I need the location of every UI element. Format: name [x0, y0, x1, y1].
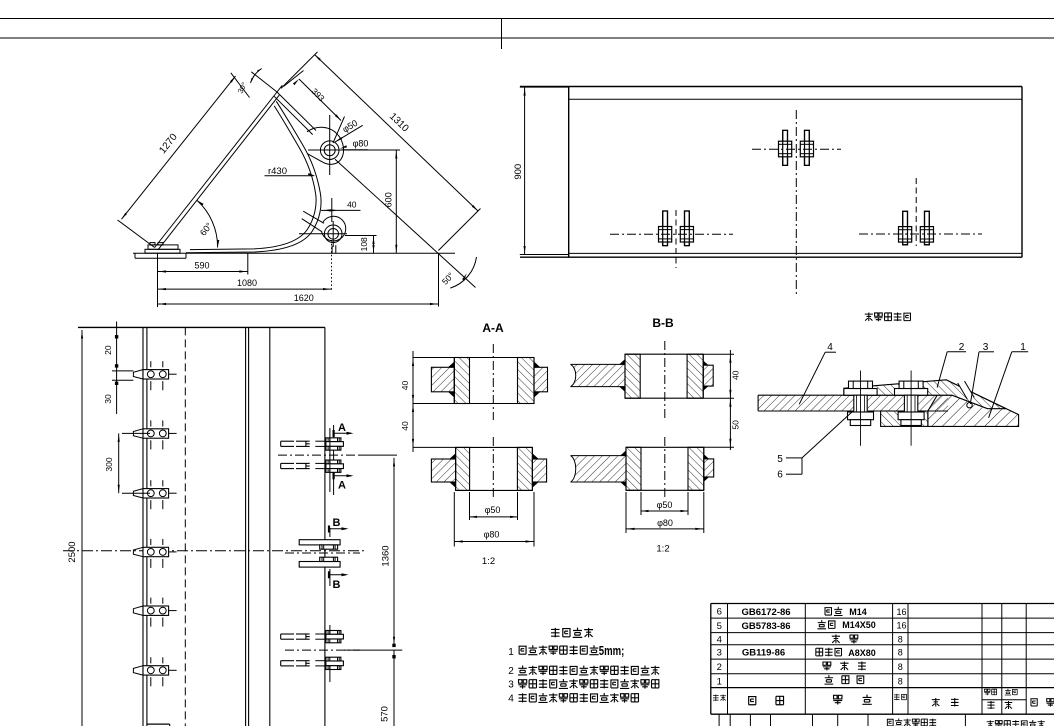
- B-B upper bushing: [625, 354, 640, 398]
- fastener row A upper clamp: [281, 440, 294, 442]
- svg-text:5mm;: 5mm;: [599, 644, 625, 658]
- A-A lower right plate: [532, 459, 546, 482]
- dimension 108: [345, 235, 377, 237]
- svg-text:M14X50: M14X50: [842, 620, 876, 630]
- A-A upper right plate: [534, 367, 548, 392]
- sheet border top line 1: [0, 18, 1054, 20]
- B-B lower right tab: [704, 459, 714, 477]
- svg-text:6: 6: [717, 606, 722, 617]
- pairB horizontal centerline: [752, 148, 841, 150]
- svg-text:B: B: [333, 517, 341, 529]
- tooth bolt at 911.1 nut chamfer: [901, 420, 921, 426]
- tooth 3: [133, 480, 176, 509]
- bucket top edge outer line: [155, 92, 277, 248]
- pairC bolt 2 nut: [920, 227, 933, 243]
- svg-text:A: A: [338, 480, 346, 492]
- parts table name row1 qiexiaoren: [824, 675, 833, 684]
- pairA bolt 1 nut: [659, 227, 672, 243]
- upper boss hole inner circle phi50: [324, 145, 335, 156]
- dimension 300: [118, 433, 120, 493]
- svg-text:3: 3: [717, 648, 722, 659]
- row C bolt axis line: [329, 625, 331, 634]
- dimension 1080: [331, 240, 333, 292]
- parts table header xuhao: [713, 695, 719, 701]
- row C centerline: [285, 649, 360, 651]
- B-B upper weld triangles: [620, 359, 626, 364]
- pairA bolt 1 shank: [663, 211, 668, 246]
- dimension 900: [520, 86, 569, 88]
- dimension 40 upper: [321, 209, 361, 211]
- parts table name row2 jibenchi: [823, 662, 831, 671]
- tooth 4: [133, 539, 176, 568]
- pairC horizontal centerline: [859, 233, 982, 235]
- tooth 6: [133, 657, 176, 686]
- svg-text:600: 600: [383, 192, 393, 207]
- part2 adapter upper: [844, 380, 1006, 409]
- bucket top edge inner line: [158, 95, 279, 250]
- svg-text:φ50: φ50: [657, 500, 673, 510]
- tooth bolt at 860.5 head: [849, 381, 873, 388]
- svg-text:8: 8: [898, 676, 903, 686]
- row B centerline: [285, 552, 360, 554]
- svg-text:1620: 1620: [294, 293, 314, 303]
- dimension 50deg arc: [450, 257, 476, 288]
- svg-text:3: 3: [508, 680, 514, 691]
- diagonal line boss to corner 50deg: [335, 159, 476, 287]
- part3 pin circle: [967, 403, 972, 408]
- svg-text:20: 20: [103, 345, 113, 355]
- pairB bolt 2 nut: [800, 141, 813, 157]
- parts table header cailiao: [932, 698, 940, 707]
- B-B upper arm: [571, 364, 626, 386]
- tooth bolt at 860.5 washer: [844, 389, 877, 396]
- dimension phi50 leader: [335, 125, 363, 142]
- A-A lower bushing: [456, 447, 470, 490]
- svg-text:40: 40: [400, 421, 410, 431]
- row C 570 extension line: [344, 649, 402, 651]
- upper boss outline: [307, 127, 344, 164]
- svg-text:16: 16: [896, 607, 906, 617]
- lip outer line: [277, 92, 316, 131]
- A-A upper weld triangles: [448, 362, 454, 368]
- B-B dimension 40 50: [729, 350, 731, 450]
- fastener row C upper clamp: [281, 633, 294, 635]
- parts table name row6 luomu M14: [824, 608, 832, 615]
- row B bolt axis line: [329, 528, 331, 537]
- base plate lower line: [135, 257, 186, 259]
- pairC bolt 1 shank: [903, 211, 908, 245]
- lip inner line: [274, 96, 313, 134]
- tooth section title: [865, 312, 873, 321]
- svg-text:1:2: 1:2: [482, 556, 495, 567]
- svg-text:GB5783-86: GB5783-86: [741, 621, 790, 632]
- shell outer curve: [186, 101, 321, 253]
- svg-text:590: 590: [194, 260, 209, 270]
- cutting edge bolt heads: [150, 243, 155, 245]
- dimension 1310: [315, 55, 479, 212]
- parts table header zhongliang: [987, 701, 994, 709]
- shell inner curve: [190, 106, 316, 250]
- lower boss crosshair vertical: [332, 221, 334, 247]
- fastener row B upper plate: [299, 540, 340, 545]
- row A centerline: [278, 454, 360, 456]
- fastener row C lower nut stack: [326, 657, 341, 661]
- lower boss inner circle: [328, 229, 339, 240]
- svg-text:6: 6: [777, 470, 783, 481]
- svg-text:A8X80: A8X80: [848, 648, 876, 658]
- fastener row A lower nut stack: [326, 460, 341, 464]
- upper boss crosshair vertical: [329, 115, 331, 175]
- pairA bolt 2 nut: [680, 227, 693, 243]
- pairC bolt 2 shank: [925, 211, 930, 245]
- svg-text:50: 50: [730, 420, 740, 430]
- fastener row C lower clamp: [281, 660, 294, 662]
- pairC bolt 1 nut: [899, 227, 912, 243]
- front view lip second line at A row: [333, 425, 335, 495]
- svg-text:40: 40: [400, 381, 410, 391]
- front view lip edge line: [324, 327, 326, 726]
- tooth bolt at 860.5 nut chamfer: [850, 420, 870, 426]
- svg-text:1:2: 1:2: [656, 544, 669, 555]
- pairB bolt 1 nut: [779, 141, 792, 157]
- section arrow B bottom: [328, 571, 330, 578]
- parts table name row4 chijian: [832, 634, 840, 643]
- rear view inner top line: [569, 98, 1022, 100]
- svg-text:1080: 1080: [237, 278, 257, 288]
- svg-text:40: 40: [347, 199, 357, 209]
- B-B upper right tab: [703, 365, 713, 386]
- parts table header danjian zongji: [984, 689, 990, 695]
- pairB vertical centerline: [795, 110, 797, 295]
- A-A upper centerline: [492, 344, 494, 420]
- svg-text:8: 8: [898, 634, 903, 644]
- section arrow A bottom: [333, 472, 335, 479]
- parts table header daihao: [748, 697, 756, 705]
- dimension 1270: [122, 76, 236, 219]
- svg-text:A: A: [338, 422, 346, 434]
- row A bolt axis line: [329, 428, 331, 492]
- B-B lower centerline: [664, 437, 666, 500]
- dimension 393: [299, 79, 341, 121]
- svg-text:φ80: φ80: [353, 138, 369, 148]
- tooth bolt at 860.5 shank: [854, 395, 867, 412]
- pairA vertical centerline: [675, 210, 677, 268]
- parts table outer and grid: [711, 603, 1054, 605]
- svg-text:2500: 2500: [67, 541, 78, 562]
- svg-text:GB6172-86: GB6172-86: [741, 607, 790, 618]
- view3 front view top edge: [78, 326, 325, 328]
- svg-text:2: 2: [508, 666, 514, 677]
- tooth bolt at 860.5 nut: [848, 412, 874, 420]
- tooth bolt at 860.5 axis line: [860, 371, 862, 446]
- svg-text:1: 1: [508, 647, 514, 658]
- title block bottom partial texts: [887, 719, 894, 726]
- svg-text:4: 4: [508, 694, 514, 705]
- svg-text:8: 8: [898, 648, 903, 658]
- tooth bolt at 911.1 washer: [895, 389, 928, 396]
- B-B lower arm: [571, 456, 627, 482]
- cutting edge bar lower: [145, 249, 180, 253]
- front view horizontal centerline: [63, 550, 367, 552]
- tooth bolt at 911.1 head: [899, 381, 923, 388]
- lip tip overshoot: [277, 85, 282, 92]
- leader 4: [799, 352, 825, 404]
- parts table header beizhu: [1030, 699, 1037, 706]
- fastener row A upper nut stack: [326, 438, 341, 442]
- A-A dimension phi80: [453, 492, 455, 547]
- dimension 20 and 30 line: [116, 322, 118, 415]
- svg-text:8: 8: [898, 662, 903, 672]
- pairA bolt 2 shank: [685, 211, 690, 246]
- tooth 5: [133, 598, 176, 627]
- section arrow B top: [328, 526, 330, 533]
- front view vertical line 4: [248, 327, 250, 726]
- part4 plate: [758, 395, 948, 411]
- lower boss crosshair horizontal: [299, 233, 347, 235]
- svg-text:GB119-86: GB119-86: [742, 648, 785, 659]
- tooth bolt at 911.1 shank: [904, 395, 917, 412]
- upper boss crosshair horizontal: [308, 149, 400, 151]
- pairC vertical centerline: [915, 178, 917, 246]
- front view vertical line 3: [245, 327, 247, 726]
- lower boss to base verticals: [331, 246, 333, 254]
- parts table header mingcheng: [833, 695, 842, 704]
- front view hidden dashed line: [184, 327, 186, 726]
- svg-text:900: 900: [513, 164, 524, 180]
- view2 bucket rear view rectangle: [568, 87, 570, 258]
- A-A upper bushing: [454, 358, 469, 404]
- fastener row C upper nut stack: [326, 631, 341, 635]
- svg-text:1: 1: [717, 676, 722, 687]
- parts table name row5 luoshuan M14X50: [817, 620, 826, 629]
- front view vertical line 5: [269, 327, 271, 726]
- parts table weight subdivider: [982, 699, 1026, 701]
- front view vertical line 1: [142, 327, 144, 726]
- tech requirements title: [551, 628, 559, 638]
- row B upper nuts: [320, 545, 338, 549]
- svg-text:M14: M14: [849, 607, 867, 617]
- front view bottom inner ledge: [147, 723, 170, 725]
- dimension 30deg: [251, 72, 277, 92]
- svg-text:30: 30: [103, 394, 113, 404]
- B-B lower weld triangles: [621, 451, 627, 456]
- dimension 2500: [81, 330, 83, 726]
- lower boss outline circle: [322, 216, 346, 241]
- section arrow A top: [333, 430, 335, 437]
- svg-text:B-B: B-B: [652, 316, 674, 330]
- dimension 570: [393, 650, 395, 726]
- svg-text:φ80: φ80: [657, 518, 673, 528]
- A-A lower centerline: [492, 437, 494, 500]
- rear view inner bottom line: [569, 252, 1022, 254]
- row B lower nuts: [320, 557, 338, 561]
- tooth bolt at 911.1 axis line: [910, 371, 912, 446]
- svg-text:2: 2: [717, 662, 722, 673]
- svg-text:5: 5: [717, 621, 722, 632]
- svg-text:φ50: φ50: [485, 505, 501, 515]
- svg-text:A-A: A-A: [482, 321, 504, 335]
- B-B upper centerline: [664, 341, 666, 418]
- A-A lower left plate: [431, 459, 455, 482]
- lower link arm upper line: [303, 211, 324, 223]
- svg-text:108: 108: [359, 237, 369, 251]
- dimension 600: [395, 150, 397, 253]
- pairB bolt 1 shank: [783, 130, 788, 165]
- svg-text:40: 40: [730, 370, 740, 380]
- parts table header shuliang: [894, 694, 900, 700]
- dimension 1620: [438, 253, 440, 306]
- pairB bolt 2 shank: [805, 130, 810, 165]
- upper boss hole outer circle phi80: [320, 141, 339, 160]
- tooth bolt at 911.1 nut: [898, 412, 924, 420]
- part2 adapter lower clamp: [881, 411, 928, 426]
- svg-text:1360: 1360: [381, 545, 392, 566]
- row A 1360 extension line: [360, 454, 397, 456]
- part1 tooth point wedge: [928, 380, 1019, 427]
- base ground line: [133, 252, 455, 254]
- svg-text:300: 300: [104, 457, 114, 471]
- B-B dimension phi80: [625, 492, 627, 533]
- pairA horizontal centerline: [610, 233, 733, 235]
- dimension 590: [157, 253, 159, 307]
- sheet border top line 2: [0, 37, 1054, 39]
- fastener row A lower clamp: [281, 462, 294, 464]
- dimension phi80 label: [340, 145, 347, 149]
- svg-text:B: B: [333, 579, 341, 591]
- lower link arm lower line: [302, 219, 322, 232]
- B-B dimension phi50: [640, 492, 642, 515]
- tooth1 extension lines for dims: [112, 370, 133, 372]
- fastener row B lower plate: [299, 562, 340, 568]
- A-A lower weld triangles: [450, 454, 456, 460]
- svg-text:φ80: φ80: [484, 530, 500, 540]
- svg-text:4: 4: [827, 342, 833, 353]
- dimension 60deg arc: [197, 200, 218, 247]
- svg-text:570: 570: [380, 706, 391, 722]
- B-B lower bushing: [626, 447, 641, 490]
- svg-text:4: 4: [717, 634, 722, 645]
- tooth 2: [133, 420, 176, 449]
- A-A upper left plate: [431, 367, 454, 392]
- tooth 1: [133, 361, 176, 390]
- cutting edge bar upper: [148, 245, 178, 249]
- A-A dimension phi50: [469, 492, 471, 520]
- svg-text:16: 16: [896, 621, 906, 631]
- front view vertical line 2: [146, 327, 148, 726]
- lower boss outer circle: [324, 225, 342, 243]
- parts table name row3 gudingxiao A8X80: [816, 648, 823, 656]
- part3 pin slot band: [958, 381, 975, 399]
- svg-text:5: 5: [777, 454, 783, 465]
- sheet border vertical divider: [501, 19, 503, 50]
- title block verticals below: [718, 714, 720, 726]
- A-A dimension 40 40: [412, 351, 414, 452]
- dimension 1360: [393, 458, 395, 645]
